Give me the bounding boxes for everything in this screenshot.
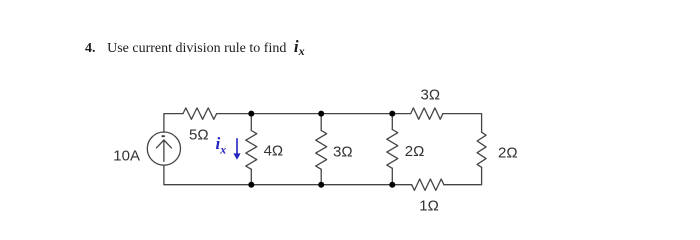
svg-text:2Ω: 2Ω — [498, 144, 518, 161]
resistor 4ohm vertical zigzag — [246, 131, 257, 170]
resistor 2ohm middle vertical zigzag — [387, 130, 398, 169]
wire: bottom-right corner from 2-ohm to 1-ohm — [444, 167, 482, 184]
svg-text:2Ω: 2Ω — [405, 143, 425, 160]
wire: 2-ohm middle branch top stub — [391, 114, 393, 130]
svg-text:3Ω: 3Ω — [333, 143, 353, 160]
current source I1 circle — [147, 132, 180, 165]
svg-text:4Ω: 4Ω — [264, 143, 284, 160]
svg-text:10A: 10A — [113, 147, 140, 164]
svg-text:1Ω: 1Ω — [419, 198, 439, 215]
resistor 3ohm top horizontal zigzag — [411, 108, 443, 119]
wire: 3-ohm branch top stub — [320, 114, 322, 131]
wire: top bus from 5-ohm to 3-ohm top resistor — [217, 113, 411, 115]
wire: top-right corner down to right 2-ohm — [443, 114, 482, 133]
current source arrow wings — [156, 140, 171, 148]
wire: bottom bus back to source — [164, 165, 412, 185]
current direction arrow ix blue head — [233, 153, 240, 159]
svg-text:Use current division rule to f: Use current division rule to find ix — [107, 37, 304, 58]
wire: top-left from source to 5-ohm — [164, 114, 183, 133]
wire: 2-ohm middle branch bottom stub — [391, 168, 393, 184]
junction node dot top of 4-ohm — [248, 111, 254, 117]
junction node dot bottom of 4-ohm — [248, 182, 254, 188]
current direction arrow ix blue shaft — [236, 138, 238, 154]
resistor 1ohm bottom horizontal zigzag — [412, 179, 444, 190]
svg-text:ix: ix — [216, 134, 227, 157]
svg-text:4.: 4. — [85, 41, 96, 56]
wire: 4-ohm branch top stub — [250, 114, 252, 131]
resistor R 5ohm horizontal zigzag — [183, 108, 217, 119]
junction node dot top of 3-ohm — [318, 111, 324, 117]
junction node dot bottom of 2-ohm middle — [389, 182, 395, 188]
resistor 3ohm vertical zigzag — [316, 131, 327, 170]
resistor 2ohm right vertical zigzag — [477, 132, 486, 167]
wire: 3-ohm branch bottom stub — [320, 169, 322, 184]
current source top dash mark — [162, 135, 165, 137]
svg-text:3Ω: 3Ω — [421, 87, 441, 104]
svg-text:5Ω: 5Ω — [189, 126, 209, 143]
wire: 4-ohm branch bottom stub — [250, 169, 252, 184]
junction node dot bottom of 3-ohm — [318, 182, 324, 188]
current source arrow shaft — [163, 140, 165, 161]
junction node dot top of 2-ohm middle — [389, 111, 395, 117]
